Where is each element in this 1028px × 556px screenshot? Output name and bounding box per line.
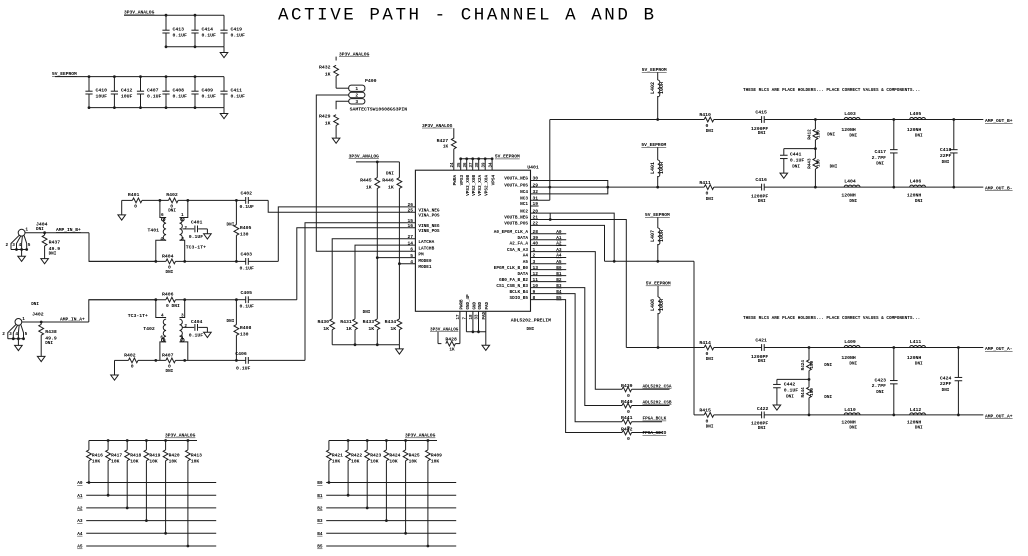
svg-text:FPGA_BCLK: FPGA_BCLK [643,417,667,422]
wire NC3 pin31 up to output line [531,199,550,201]
pin 37 VPS2_X0B [472,159,474,170]
svg-text:0.1UF: 0.1UF [189,234,204,240]
wire mid line [605,260,695,262]
svg-text:1K: 1K [368,326,374,332]
svg-text:L407: L407 [650,230,656,242]
wire mid line down to R415 [693,261,695,415]
resistor R444 150 DNI [808,379,810,387]
inductor L402 10UH [657,73,659,81]
ground [482,345,490,350]
svg-text:0.1UF: 0.1UF [231,94,246,100]
svg-text:R444: R444 [801,387,806,398]
svg-text:GB0_FA_B_B2: GB0_FA_B_B2 [499,278,528,283]
wire C402 to VINA_POS [268,200,415,212]
svg-text:DNI: DNI [36,227,44,232]
svg-text:R446: R446 [382,177,394,183]
svg-text:AMP_OUT_A+: AMP_OUT_A+ [985,414,1013,420]
svg-text:1K: 1K [366,184,372,190]
wire output line B+ [550,119,704,121]
pin 38 VPS3_X2A [478,159,480,170]
svg-text:10UF: 10UF [96,94,108,100]
capacitor C442 0.1UF DNI [776,379,778,384]
svg-text:R413: R413 [191,453,202,459]
svg-text:MODE1: MODE1 [418,265,432,270]
svg-text:1K: 1K [325,120,331,126]
svg-text:0.1UF: 0.1UF [240,303,255,309]
wire P400 pin3 [336,101,349,109]
svg-text:3P3V_ANALOG: 3P3V_ANALOG [405,433,436,439]
svg-text:DNI: DNI [706,357,714,362]
svg-text:R419: R419 [149,453,160,459]
svg-text:2: 2 [6,243,9,248]
svg-text:CSA_N_A3: CSA_N_A3 [507,248,528,253]
resistor R423 10K [366,439,369,442]
svg-text:DNI: DNI [824,395,832,400]
svg-text:1: 1 [181,335,184,340]
svg-text:0.1UF: 0.1UF [202,94,217,100]
svg-text:0: 0 [706,191,709,197]
svg-text:L402: L402 [650,82,656,94]
ground [780,173,788,178]
svg-text:VOUTB_NEG: VOUTB_NEG [504,216,528,221]
inductor L410 120NH DNI [844,413,860,415]
svg-text:R443: R443 [808,158,813,169]
ground [773,405,781,410]
wire [124,14,224,16]
svg-text:NC3: NC3 [520,196,528,201]
wire [89,107,224,109]
wire PWRB pin [459,311,461,343]
junction pin20/21 [549,213,551,219]
svg-text:4: 4 [160,237,163,242]
svg-text:DNI: DNI [849,134,857,139]
resistor R414 0 DNI [704,345,714,350]
svg-text:DNI: DNI [824,363,832,368]
svg-text:0: 0 [627,409,630,415]
svg-text:120NH: 120NH [907,127,922,133]
svg-text:10K: 10K [351,458,360,464]
svg-text:AMP_OUT_A-: AMP_OUT_A- [985,346,1013,352]
wire output line B- [608,186,704,188]
wire pin stub net A0 [531,233,567,235]
resistor R412 150 DNI [814,120,816,130]
svg-text:LATCHB: LATCHB [418,247,434,252]
svg-text:DNI: DNI [915,425,923,430]
resistor R402b 0 [128,358,138,363]
svg-text:3P3V_ANALOG: 3P3V_ANALOG [430,327,459,332]
ground [114,360,116,375]
capacitor C419 0.1UF [223,15,225,30]
svg-text:R415: R415 [699,408,711,414]
transformer T401 TC3-1T+ top rail [122,199,133,201]
svg-text:BCLK_B4: BCLK_B4 [510,290,529,295]
inductor L403 120NH DNI [844,118,860,120]
wire [335,57,337,61]
svg-text:150: 150 [817,159,822,167]
resistor R442 0 (FPGA_SDIO) [622,430,632,435]
svg-text:B5: B5 [556,296,562,301]
wire output line A- [626,347,704,349]
svg-text:DNI: DNI [786,395,794,400]
resistor R415 0 DNI [704,413,714,418]
wire [376,162,378,178]
ground [37,356,45,361]
wire NC1 pin19 stub [531,205,539,207]
wire PAD pin [485,311,487,345]
svg-text:B1: B1 [556,272,562,277]
ground [41,259,49,264]
svg-text:DNI: DNI [849,362,857,367]
svg-text:C402: C402 [241,191,253,197]
svg-text:5V_EEPROM: 5V_EEPROM [645,212,670,218]
wire P400 pin2 to PM [316,95,415,251]
svg-text:P400: P400 [365,78,377,84]
wire output line A+ [694,414,704,416]
svg-text:VPS3: VPS3 [460,174,465,185]
svg-text:C419: C419 [231,27,243,33]
svg-text:L403: L403 [844,111,856,117]
capacitor C411 0.1UF [223,77,225,91]
wire pin stub net A2 [531,244,567,246]
wire R446 to MODE1 node [398,188,400,319]
svg-text:MODE0: MODE0 [418,259,432,264]
resistor R443 150 DNI [814,149,816,159]
svg-text:R439: R439 [621,383,633,389]
svg-text:VINA_NEG: VINA_NEG [418,208,439,213]
svg-text:R427: R427 [437,138,449,144]
ground (T401 primary) [121,200,123,215]
svg-text:DNI: DNI [31,302,39,307]
svg-text:DNI: DNI [849,199,857,204]
svg-text:3: 3 [181,237,184,242]
capacitor C414 0.1UF [194,15,196,30]
inductor L401 10UH [657,148,659,161]
svg-text:C442: C442 [784,381,796,387]
svg-text:R437: R437 [49,240,61,246]
svg-text:3P3V_ANALOG: 3P3V_ANALOG [339,51,370,57]
svg-text:A0: A0 [77,481,83,486]
svg-text:DNI: DNI [706,425,714,430]
svg-text:B5: B5 [317,545,323,550]
svg-text:FPGA_SDIO: FPGA_SDIO [643,431,667,436]
svg-text:DNI: DNI [942,160,950,165]
wire GND pins [465,311,467,332]
svg-text:0: 0 [627,393,630,399]
svg-text:R422: R422 [351,453,362,459]
svg-text:R411: R411 [699,180,711,186]
svg-text:A4: A4 [77,532,83,537]
svg-text:ACTIVE PATH - CHANNEL A AND B: ACTIVE PATH - CHANNEL A AND B [278,6,657,26]
svg-text:VOUTA_POS: VOUTA_POS [504,183,528,188]
pin 34 VPS4 [491,159,493,170]
resistor R417 10K [107,439,110,442]
wire [356,161,399,163]
svg-text:R408: R408 [240,325,252,331]
svg-text:C418: C418 [940,147,952,153]
svg-text:0: 0 [131,364,134,370]
svg-text:R420: R420 [169,453,180,459]
svg-text:0: 0 [134,204,137,210]
svg-text:1K: 1K [323,326,329,332]
resistor R404 0 DNI [166,259,176,264]
op-amp U401 ADL5202_PRELIM (dual digital VGA) [415,170,530,311]
svg-text:R441: R441 [621,415,633,421]
resistor R428 1K [446,341,456,346]
svg-text:A0: A0 [556,230,562,235]
inductor L407 10UH [657,218,659,229]
ground [223,47,225,53]
svg-text:NC2: NC2 [520,209,528,214]
svg-text:A1: A1 [77,494,83,499]
wire LATCHA to R430 [332,239,415,319]
pin 36 VPS3_X0B [466,159,468,170]
svg-text:150: 150 [810,388,815,396]
svg-text:10K: 10K [431,458,440,464]
svg-text:DNI: DNI [166,369,174,374]
svg-text:C441: C441 [790,151,802,157]
svg-text:C409: C409 [202,88,214,94]
svg-text:0.1UF: 0.1UF [189,333,204,339]
svg-text:DNI: DNI [166,270,174,275]
wire VOUTA_NEG pin30 [531,181,608,188]
wire VOUTB_POS pin22 to mid line [531,225,605,261]
svg-text:0.1UF: 0.1UF [236,365,251,371]
svg-text:120NH: 120NH [907,192,922,198]
svg-text:0.1UF: 0.1UF [784,387,799,393]
svg-text:4: 4 [15,332,18,337]
wire A3 to R439 [531,252,623,390]
svg-text:ADL5202_CSA: ADL5202_CSA [643,384,672,389]
ground [17,339,19,346]
svg-text:R445: R445 [360,177,372,183]
svg-text:DNI: DNI [227,222,235,227]
svg-text:2: 2 [184,324,187,329]
svg-text:L412: L412 [910,407,922,413]
svg-text:PAD: PAD [486,301,490,309]
wire VOUTB_NEG pin21 to channel-A filter [531,220,627,348]
svg-text:B2: B2 [317,507,323,512]
svg-text:B1: B1 [317,494,323,499]
transformer T401 windings [160,200,166,217]
svg-text:L401: L401 [650,162,656,174]
svg-text:ADL5202_PRELIM: ADL5202_PRELIM [511,317,551,323]
inductor L412 120NH DNI [910,413,926,415]
resistor R427 1K [451,138,456,149]
capacitor C412 10UF [113,77,115,91]
svg-text:36: 36 [464,162,468,168]
svg-text:C416: C416 [755,177,767,183]
svg-text:B0: B0 [317,481,323,486]
svg-text:120NH: 120NH [841,192,856,198]
svg-text:DNI: DNI [876,161,884,166]
svg-text:37: 37 [470,162,474,168]
svg-text:0.1UF: 0.1UF [173,94,188,100]
transformer T402 TC3-1T+ top rail [89,299,166,301]
svg-text:R421: R421 [332,453,343,459]
svg-text:C413: C413 [173,27,185,33]
svg-text:A4: A4 [523,254,529,259]
svg-text:0.1UF: 0.1UF [202,33,217,39]
svg-text:DNI: DNI [363,310,371,315]
svg-text:CS1_CSB_N_B3: CS1_CSB_N_B3 [496,284,528,289]
svg-text:C407: C407 [147,88,159,94]
svg-text:1: 1 [25,228,28,233]
svg-text:10UF: 10UF [121,94,133,100]
pin 35 VPS3 [460,159,462,170]
svg-text:DNI: DNI [876,390,884,395]
wire C403 to VINA_NEG [278,207,415,262]
resistor R440 0 (ADL5202_CSB) [622,403,632,408]
svg-text:B3: B3 [556,284,562,289]
resistor R429 1K [334,115,339,126]
svg-text:VOUTA_NEG: VOUTA_NEG [504,177,528,182]
svg-text:C405: C405 [241,290,253,296]
svg-text:B4: B4 [317,532,323,537]
svg-text:DNI: DNI [227,319,235,324]
svg-text:0.1UF: 0.1UF [231,33,246,39]
svg-text:L411: L411 [910,339,922,345]
svg-text:5: 5 [28,243,31,248]
svg-text:VPS2_X0B: VPS2_X0B [472,174,477,195]
svg-text:R414: R414 [699,340,711,346]
resistor R401 0 [132,198,142,203]
resistor R439 0 (ADL5202_CSA) [622,387,632,392]
wire pin stub net A1 [531,239,567,241]
svg-text:R434: R434 [385,319,397,325]
svg-text:10K: 10K [370,458,379,464]
svg-text:DNI: DNI [527,327,535,332]
capacitor C424 22PF DNI [957,346,960,349]
svg-text:R432: R432 [319,64,331,70]
svg-text:R405: R405 [240,225,252,231]
svg-text:SDIO_B5: SDIO_B5 [510,296,529,301]
svg-text:PM: PM [418,253,424,258]
svg-text:R433: R433 [363,319,375,325]
resistor R407 0 DNI [166,358,176,363]
svg-text:R423: R423 [370,453,381,459]
svg-text:R402: R402 [166,192,178,198]
wire pin stub net A5 [531,263,567,265]
capacitor C415 1200PF DNI [761,116,763,123]
svg-text:A1: A1 [556,236,562,241]
resistor R419 10K [145,439,148,442]
svg-text:R401: R401 [128,192,140,198]
resistor R411 0 DNI [704,185,714,190]
wire [453,128,455,138]
svg-text:SAMTECTSW10608GS3PIN: SAMTECTSW10608GS3PIN [350,106,408,112]
svg-text:34: 34 [490,162,494,168]
svg-text:150: 150 [810,360,815,368]
svg-text:TC3-1T+: TC3-1T+ [186,244,206,250]
svg-text:10UH: 10UH [659,162,665,174]
node R424 top [808,346,811,349]
resistor R424 150 DNI [808,348,810,361]
svg-text:DNI: DNI [168,209,176,214]
ground [206,229,208,234]
svg-text:1K: 1K [325,71,331,77]
svg-text:5V_EEPROM: 5V_EEPROM [646,281,671,287]
svg-text:VPS3_X0B: VPS3_X0B [466,174,471,195]
capacitor C405 0.1UF [235,298,238,301]
svg-text:R430: R430 [317,319,329,325]
svg-text:L408: L408 [650,299,656,311]
svg-text:1K: 1K [449,348,455,353]
svg-text:A2: A2 [556,242,562,247]
connector J404 ground legs [11,235,19,249]
svg-text:0: 0 [706,123,709,129]
svg-text:J402: J402 [32,312,44,318]
wire C406 to VINB_NEG [305,223,415,361]
svg-text:R438: R438 [45,329,57,335]
capacitor C416 1200PF DNI [761,184,763,191]
wire LATCHB to R431 [355,245,415,319]
capacitor C417 2.7PF DNI [892,118,895,121]
resistor R420 10K [164,439,167,442]
svg-text:10UH: 10UH [659,299,665,311]
svg-text:PWRA: PWRA [453,174,458,185]
svg-text:DNI: DNI [942,388,950,393]
svg-text:1: 1 [22,317,25,322]
svg-text:THESE RLCS ARE PLACE HOLDERS..: THESE RLCS ARE PLACE HOLDERS... PLACE CO… [743,88,920,93]
svg-text:DNI: DNI [758,426,766,431]
inductor L405 120NH DNI [910,118,926,120]
svg-text:DNI: DNI [49,252,57,257]
svg-text:3P3V_ANALOG: 3P3V_ANALOG [165,433,196,439]
svg-text:38: 38 [476,162,480,168]
svg-text:A2: A2 [77,507,83,512]
svg-text:1: 1 [355,86,358,92]
svg-text:22PF: 22PF [940,153,952,159]
inductor L408 10UH [657,286,659,297]
capacitor C422 1200PF DNI [761,412,763,419]
svg-text:6: 6 [161,213,164,218]
capacitor C406 0.1UF [235,359,238,362]
svg-text:R407: R407 [162,353,174,359]
svg-text:10K: 10K [149,458,158,464]
svg-text:DNI: DNI [792,165,800,170]
svg-text:10K: 10K [409,458,418,464]
wire J402 to T402 [22,321,89,323]
svg-text:C412: C412 [121,88,133,94]
svg-text:5: 5 [25,332,28,337]
svg-text:R431: R431 [340,319,352,325]
svg-text:2: 2 [355,93,358,99]
svg-text:A3: A3 [77,519,83,524]
svg-text:3: 3 [355,99,358,105]
svg-text:AMP_OUT_B+: AMP_OUT_B+ [985,118,1013,124]
svg-text:C410: C410 [96,88,108,94]
svg-text:1K: 1K [346,326,352,332]
svg-text:1: 1 [181,213,184,218]
svg-text:R424: R424 [389,453,400,459]
wire NC4 pin32 [531,187,608,194]
wire [55,76,224,78]
svg-text:VPS2_X0A: VPS2_X0A [484,174,489,195]
ground [21,250,23,257]
svg-text:R424: R424 [801,360,806,371]
svg-text:R416: R416 [92,453,103,459]
svg-text:C403: C403 [241,252,253,258]
svg-text:10K: 10K [130,458,139,464]
resistor R446 1K DNI [397,178,402,189]
svg-text:C401: C401 [191,220,203,226]
svg-text:C404: C404 [191,319,203,325]
svg-text:DNI: DNI [827,132,835,137]
svg-text:C408: C408 [173,88,185,94]
svg-text:L405: L405 [910,111,922,117]
ground [206,327,208,332]
svg-text:GND: GND [479,301,483,309]
